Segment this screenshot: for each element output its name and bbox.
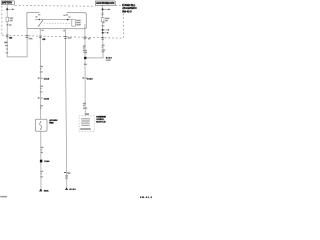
svg-text:C100: C100 xyxy=(9,38,13,40)
svg-text:BATTERY: BATTERY xyxy=(2,1,12,5)
svg-text:8W-42-5: 8W-42-5 xyxy=(122,10,132,13)
svg-text:S110: S110 xyxy=(106,58,113,60)
svg-text:C132: C132 xyxy=(87,78,93,80)
svg-text:C113: C113 xyxy=(44,79,50,81)
svg-text:G101: G101 xyxy=(44,190,50,192)
svg-text:C126: C126 xyxy=(44,99,50,101)
svg-text:C100: C100 xyxy=(42,39,46,41)
svg-text:8W-42-2: 8W-42-2 xyxy=(140,196,152,199)
svg-text:MODULE: MODULE xyxy=(96,121,106,123)
svg-text:G100: G100 xyxy=(69,189,76,191)
svg-text:JUNCTION BLOCK: JUNCTION BLOCK xyxy=(96,1,115,5)
svg-text:PRES: PRES xyxy=(49,123,54,125)
svg-text:S144: S144 xyxy=(44,160,50,163)
